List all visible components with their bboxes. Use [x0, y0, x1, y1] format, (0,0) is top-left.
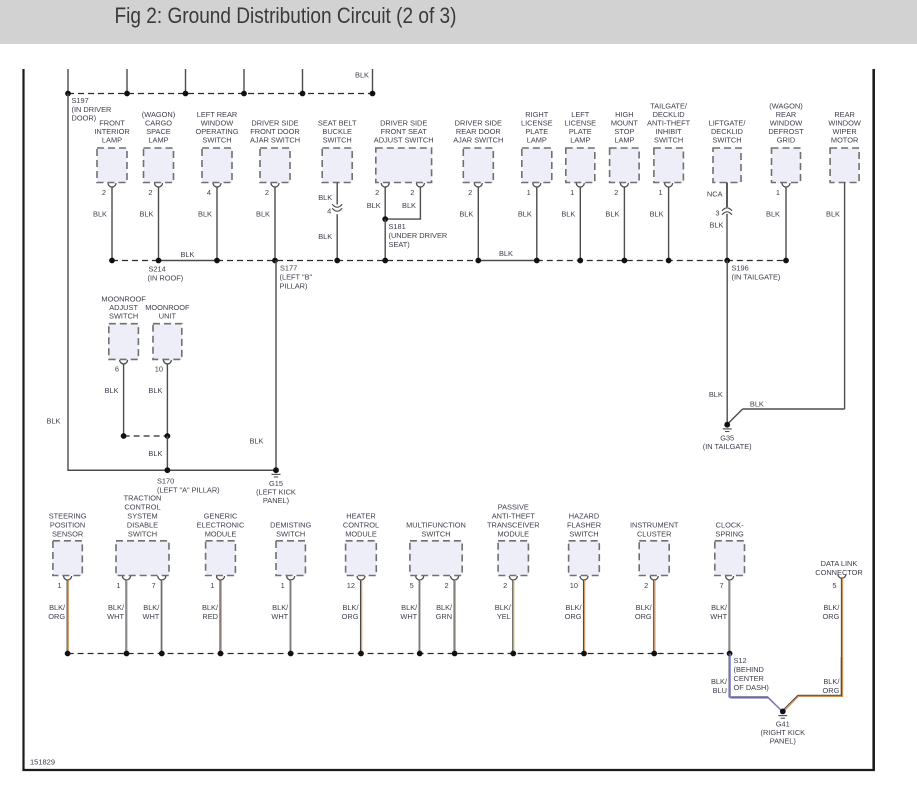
svg-text:BLK/: BLK/ — [342, 603, 359, 612]
svg-text:CENTER: CENTER — [734, 674, 764, 683]
component passive anti-theft transceiver module — [487, 503, 540, 591]
svg-text:(IN ROOF): (IN ROOF) — [148, 274, 184, 283]
ground G35 — [724, 422, 730, 428]
node on bus3 6 — [358, 651, 364, 657]
component data link connector — [815, 559, 863, 590]
wire S181 to bus BLK — [384, 219, 386, 260]
wire heater control module pin 12 BLK/ORG — [360, 580, 362, 654]
svg-text:ORG: ORG — [48, 612, 65, 621]
svg-text:SENSOR: SENSOR — [52, 530, 83, 539]
wire traction control system disable switch pin 7 BLK/WHT — [160, 580, 162, 654]
svg-text:BLK: BLK — [826, 210, 840, 219]
svg-text:GRID: GRID — [777, 136, 795, 145]
node on bus3 1 — [65, 651, 71, 657]
wire steering position sensor pin 1 BLK/ORG — [66, 580, 68, 654]
svg-text:MODULE: MODULE — [497, 530, 529, 539]
svg-text:SYSTEM: SYSTEM — [127, 512, 157, 521]
node on bus3 12 — [727, 651, 733, 657]
svg-text:BLK: BLK — [318, 193, 332, 202]
svg-text:(UNDER DRIVER: (UNDER DRIVER — [389, 231, 448, 240]
bus lower ground distribution line (S12) — [68, 653, 730, 655]
svg-text:STEERING: STEERING — [49, 512, 87, 521]
wire high mount stop lamp BLK — [623, 187, 625, 261]
svg-text:ORG: ORG — [342, 612, 359, 621]
component moonroof adjust switch — [101, 295, 146, 374]
svg-text:WHT: WHT — [400, 612, 417, 621]
svg-text:DATA LINK: DATA LINK — [821, 559, 858, 568]
svg-text:LAMP: LAMP — [570, 136, 590, 145]
svg-text:BLK/: BLK/ — [711, 677, 728, 686]
svg-text:SWITCH: SWITCH — [202, 136, 231, 145]
svg-text:BLK/: BLK/ — [711, 603, 728, 612]
svg-text:HEATER: HEATER — [346, 512, 375, 521]
wire hazard flasher switch pin 10 BLK/ORG — [583, 580, 585, 654]
svg-text:BLK/: BLK/ — [202, 603, 219, 612]
node S181 — [382, 216, 388, 222]
svg-text:4: 4 — [327, 207, 331, 216]
svg-text:BLK: BLK — [256, 210, 270, 219]
svg-text:BLK: BLK — [561, 210, 575, 219]
component cargo space lamp — [142, 110, 175, 197]
component left rear window operating switch — [196, 110, 239, 197]
node on S197 bus 2 — [124, 91, 130, 97]
svg-text:1: 1 — [658, 188, 662, 197]
diagram frame border — [22, 69, 24, 770]
svg-text:BLK: BLK — [766, 210, 780, 219]
svg-text:(LEFT "B": (LEFT "B" — [280, 273, 313, 282]
wire stub from top 1 — [67, 69, 69, 94]
bus ground distribution line (S214/S177/S196) — [112, 260, 159, 262]
svg-text:5: 5 — [832, 581, 836, 590]
wire stub from top 6 — [372, 69, 374, 94]
wire seat adjust switch pin2 right BLK — [419, 187, 421, 219]
svg-text:BLK/: BLK/ — [108, 603, 125, 612]
wire stub from top 2 — [126, 69, 128, 94]
ground G41 — [780, 709, 786, 715]
svg-text:2: 2 — [375, 188, 379, 197]
svg-text:MODULE: MODULE — [205, 530, 237, 539]
wire S177 down to G15 BLK — [275, 261, 277, 471]
wire traction control system disable switch pin 1 BLK/WHT — [125, 580, 127, 654]
node on bus2 6 — [382, 258, 388, 264]
svg-text:BLK: BLK — [367, 201, 381, 210]
svg-text:BLK/: BLK/ — [495, 603, 512, 612]
component hazard flasher switch — [567, 512, 601, 591]
svg-text:BLK: BLK — [709, 390, 723, 399]
svg-text:MODULE: MODULE — [345, 530, 377, 539]
component seat belt buckle switch — [318, 119, 357, 183]
svg-text:BLK: BLK — [750, 400, 764, 409]
svg-text:7: 7 — [152, 581, 156, 590]
node on bus3 2 — [124, 651, 130, 657]
component clock-spring — [715, 521, 745, 591]
node on S197 bus 1 — [65, 91, 71, 97]
svg-text:RED: RED — [202, 612, 218, 621]
svg-text:BLK: BLK — [105, 386, 119, 395]
svg-text:1: 1 — [527, 188, 531, 197]
svg-text:S214: S214 — [149, 265, 166, 274]
svg-text:2: 2 — [468, 188, 472, 197]
svg-text:BLK: BLK — [140, 210, 154, 219]
component high mount stop lamp — [610, 110, 640, 197]
wire defrost grid BLK — [785, 187, 787, 261]
svg-text:SPRING: SPRING — [715, 530, 744, 539]
wire moonroof to S170 BLK — [166, 436, 168, 470]
svg-text:2: 2 — [265, 188, 269, 197]
svg-text:BLK: BLK — [93, 210, 107, 219]
svg-text:CONTROL: CONTROL — [124, 503, 160, 512]
svg-text:2: 2 — [614, 188, 618, 197]
svg-text:BLK/: BLK/ — [272, 603, 289, 612]
svg-text:LAMP: LAMP — [527, 136, 547, 145]
svg-text:3: 3 — [715, 209, 719, 218]
wire passive anti-theft transceiver module pin 2 BLK/YEL — [512, 580, 514, 654]
svg-text:S170: S170 — [157, 477, 174, 486]
wire tailgate anti-theft BLK — [668, 187, 670, 261]
node on bus2 9 — [577, 258, 583, 264]
node on bus2 13 — [783, 258, 789, 264]
wire S196 down to G35 BLK — [726, 261, 728, 425]
node on S197 bus 5 — [300, 91, 306, 97]
svg-text:(IN TAILGATE): (IN TAILGATE) — [703, 442, 752, 451]
component right license plate lamp — [521, 110, 553, 197]
component traction control system disable switch — [116, 494, 169, 591]
svg-text:TRANSCEIVER: TRANSCEIVER — [487, 521, 540, 530]
wire left rear window switch BLK to bus — [216, 187, 218, 261]
svg-text:BLK: BLK — [650, 210, 664, 219]
node S170 — [165, 467, 171, 473]
wire wiper motor horizontal to G35 — [743, 408, 845, 410]
svg-text:MULTIFUNCTION: MULTIFUNCTION — [406, 521, 466, 530]
svg-text:WHT: WHT — [142, 612, 159, 621]
node on bus3 8 — [452, 651, 458, 657]
svg-text:BLK/: BLK/ — [436, 603, 453, 612]
svg-text:AJAR SWITCH: AJAR SWITCH — [250, 136, 300, 145]
svg-text:BLK: BLK — [181, 250, 195, 259]
svg-text:BLK: BLK — [148, 386, 162, 395]
component left license plate lamp — [564, 110, 596, 197]
node on bus2 11 — [666, 258, 672, 264]
node on bus3 4 — [218, 651, 224, 657]
svg-text:SWITCH: SWITCH — [654, 136, 683, 145]
svg-text:7: 7 — [719, 581, 723, 590]
svg-text:BLK: BLK — [459, 210, 473, 219]
node on bus3 11 — [651, 651, 657, 657]
svg-text:PILLAR): PILLAR) — [280, 282, 308, 291]
svg-text:GENERIC: GENERIC — [204, 512, 238, 521]
svg-text:5: 5 — [410, 581, 414, 590]
svg-text:ORG: ORG — [565, 612, 582, 621]
svg-text:1: 1 — [776, 188, 780, 197]
wire stub from top 4 — [243, 69, 245, 94]
wire rear window wiper motor BLK down — [844, 183, 846, 410]
svg-text:SWITCH: SWITCH — [712, 136, 741, 145]
inline connector on seat belt wire pin 4 — [332, 204, 342, 207]
svg-text:Fig 2: Ground Distribution Cir: Fig 2: Ground Distribution Circuit (2 of… — [115, 3, 457, 28]
svg-text:MOTOR: MOTOR — [831, 136, 858, 145]
svg-text:SWITCH: SWITCH — [276, 530, 305, 539]
svg-text:DEMISTING: DEMISTING — [270, 521, 311, 530]
svg-text:2: 2 — [644, 581, 648, 590]
svg-text:BLK/: BLK/ — [143, 603, 160, 612]
svg-text:BLK: BLK — [318, 232, 332, 241]
ground G15 — [273, 467, 279, 473]
svg-text:(LEFT "A" PILLAR): (LEFT "A" PILLAR) — [157, 486, 220, 495]
wire BLK solid segment S214 — [159, 260, 218, 262]
svg-text:ORG: ORG — [635, 612, 652, 621]
component demisting switch — [270, 521, 311, 591]
svg-text:BLU: BLU — [713, 686, 727, 695]
svg-text:PANEL): PANEL) — [263, 496, 289, 505]
node on bus3 9 — [510, 651, 516, 657]
svg-text:6: 6 — [115, 365, 119, 374]
svg-text:BLK/: BLK/ — [401, 603, 418, 612]
node moonroof left — [121, 433, 127, 439]
svg-text:AJAR SWITCH: AJAR SWITCH — [453, 136, 503, 145]
dashed link between moonroof wires — [124, 435, 168, 437]
component instrument cluster — [630, 521, 679, 591]
svg-text:PASSIVE: PASSIVE — [498, 503, 529, 512]
node on S197 bus 4 — [241, 91, 247, 97]
component front interior lamp — [94, 119, 129, 198]
wire instrument cluster pin 2 BLK/ORG — [653, 580, 655, 654]
svg-text:SWITCH: SWITCH — [128, 530, 157, 539]
component rear window wiper motor — [828, 110, 860, 183]
svg-text:BLK: BLK — [710, 221, 724, 230]
component steering position sensor — [49, 512, 87, 591]
wire driver front door ajar BLK to bus — [274, 187, 276, 261]
node on bus2 8 — [534, 258, 540, 264]
svg-text:TRACTION: TRACTION — [124, 494, 162, 503]
svg-text:2: 2 — [148, 188, 152, 197]
component driver side rear door ajar switch — [453, 119, 503, 198]
wire rear door ajar BLK to bus — [477, 187, 479, 261]
svg-text:BLK/: BLK/ — [823, 677, 840, 686]
svg-text:BLK: BLK — [499, 249, 513, 258]
svg-text:UNIT: UNIT — [159, 312, 177, 321]
svg-text:ADJUST SWITCH: ADJUST SWITCH — [374, 136, 434, 145]
svg-text:CLUSTER: CLUSTER — [637, 530, 672, 539]
node on bus2 1 — [109, 258, 115, 264]
node on bus2 3 — [214, 258, 220, 264]
wire seat adjust switch pin2 left BLK — [384, 187, 386, 219]
svg-text:CLOCK-: CLOCK- — [716, 521, 744, 530]
svg-text:ORG: ORG — [823, 612, 840, 621]
wire moonroof unit BLK — [166, 364, 168, 436]
component driver side front door ajar switch — [250, 119, 300, 198]
svg-text:WHT: WHT — [107, 612, 124, 621]
svg-text:SEAT): SEAT) — [389, 240, 410, 249]
title bar — [0, 0, 917, 44]
svg-text:BLK: BLK — [355, 71, 369, 80]
svg-text:10: 10 — [570, 581, 578, 590]
svg-text:INSTRUMENT: INSTRUMENT — [630, 521, 679, 530]
wire data link connector BLK/ORG — [840, 578, 842, 696]
wire seat belt buckle BLK lower — [336, 214, 338, 260]
svg-text:S196: S196 — [732, 264, 749, 273]
svg-text:LAMP: LAMP — [102, 136, 122, 145]
svg-text:NCA: NCA — [707, 190, 723, 199]
component liftgate/decklid switch — [709, 119, 747, 183]
svg-text:POSITION: POSITION — [50, 521, 85, 530]
svg-text:SWITCH: SWITCH — [323, 136, 352, 145]
svg-text:2: 2 — [102, 188, 106, 197]
svg-text:YEL: YEL — [497, 612, 511, 621]
svg-text:1: 1 — [57, 581, 61, 590]
svg-text:WHT: WHT — [271, 612, 288, 621]
node on S197 bus 6 — [370, 91, 376, 97]
node on bus2 7 — [475, 258, 481, 264]
node moonroof right — [165, 433, 171, 439]
svg-text:BLK: BLK — [47, 417, 61, 426]
svg-text:(BEHIND: (BEHIND — [734, 665, 764, 674]
wire demisting switch pin 1 BLK/WHT — [289, 580, 291, 654]
component multifunction switch — [406, 521, 466, 591]
svg-text:2: 2 — [410, 188, 414, 197]
svg-text:(IN TAILGATE): (IN TAILGATE) — [732, 273, 781, 282]
component tailgate/decklid anti-theft inhibit switch — [647, 102, 691, 198]
svg-text:10: 10 — [155, 365, 163, 374]
svg-text:OF DASH): OF DASH) — [734, 683, 769, 692]
node on bus3 3 — [159, 651, 165, 657]
node on bus2 12 — [724, 258, 730, 264]
svg-text:DISABLE: DISABLE — [127, 521, 158, 530]
wire stub from top 5 — [302, 69, 304, 94]
wire liftgate/decklid switch NCA — [726, 183, 728, 208]
component heater control module — [343, 512, 379, 591]
wire front interior lamp BLK to bus — [111, 187, 113, 261]
wire data link to G41 BLK/ORG — [783, 657, 841, 710]
svg-text:DOOR): DOOR) — [72, 114, 97, 123]
svg-text:BLK/: BLK/ — [636, 603, 653, 612]
svg-text:BLK: BLK — [518, 210, 532, 219]
svg-text:2: 2 — [444, 581, 448, 590]
svg-text:LAMP: LAMP — [148, 136, 168, 145]
node on bus2 2 — [156, 258, 162, 264]
svg-text:LAMP: LAMP — [614, 136, 634, 145]
svg-text:SWITCH: SWITCH — [421, 530, 450, 539]
svg-text:CONNECTOR: CONNECTOR — [815, 568, 863, 577]
inline connector on liftgate wire pin 3 — [722, 208, 732, 211]
svg-text:S197: S197 — [72, 96, 89, 105]
svg-text:BLK/: BLK/ — [823, 603, 840, 612]
svg-text:2: 2 — [503, 581, 507, 590]
svg-text:BLK: BLK — [198, 210, 212, 219]
component generic electronic module — [197, 512, 245, 591]
svg-text:SWITCH: SWITCH — [109, 312, 138, 321]
svg-text:HAZARD: HAZARD — [569, 512, 599, 521]
component driver side front seat adjust switch — [374, 119, 434, 198]
svg-text:WHT: WHT — [710, 612, 727, 621]
svg-text:ELECTRONIC: ELECTRONIC — [197, 521, 245, 530]
node on bus3 5 — [288, 651, 294, 657]
node on bus2 10 — [622, 258, 628, 264]
svg-text:1: 1 — [570, 188, 574, 197]
svg-text:S12: S12 — [734, 656, 747, 665]
node on bus2 5 — [334, 258, 340, 264]
wire seat belt buckle BLK upper — [336, 183, 338, 205]
svg-text:ANTI-THEFT: ANTI-THEFT — [492, 512, 536, 521]
node on S197 bus 3 — [183, 91, 189, 97]
wire right license lamp BLK — [536, 187, 538, 261]
node on bus3 10 — [581, 651, 587, 657]
wire S197 down left side to S170 — [67, 94, 69, 471]
wire BLK solid segment right — [478, 260, 537, 262]
wire S12 to G41 BLK/BLU — [729, 654, 782, 712]
svg-text:151829: 151829 — [30, 758, 55, 767]
svg-text:S181: S181 — [389, 222, 406, 231]
svg-text:1: 1 — [210, 581, 214, 590]
svg-text:FLASHER: FLASHER — [567, 521, 601, 530]
svg-text:BLK: BLK — [148, 449, 162, 458]
svg-text:PANEL): PANEL) — [770, 737, 796, 746]
wire generic electronic module pin 1 BLK/RED — [219, 580, 221, 654]
wire cargo space lamp BLK to bus — [158, 187, 160, 261]
svg-text:S177: S177 — [280, 264, 297, 273]
svg-text:BLK: BLK — [605, 210, 619, 219]
svg-text:BLK: BLK — [250, 437, 264, 446]
node on bus3 7 — [417, 651, 423, 657]
wire left license lamp BLK — [579, 187, 581, 261]
svg-text:1: 1 — [281, 581, 285, 590]
svg-text:SWITCH: SWITCH — [569, 530, 598, 539]
svg-text:GRN: GRN — [436, 612, 452, 621]
svg-text:BLK/: BLK/ — [565, 603, 582, 612]
svg-text:CONTROL: CONTROL — [343, 521, 379, 530]
wire multifunction switch pin 5 BLK/WHT — [418, 580, 420, 654]
bus S197 dashed ground distribution line — [68, 93, 373, 95]
svg-text:BLK/: BLK/ — [49, 603, 66, 612]
wire clock-spring pin 7 BLK/WHT — [728, 580, 730, 654]
svg-text:12: 12 — [347, 581, 355, 590]
svg-text:4: 4 — [207, 188, 211, 197]
wire multifunction switch pin 2 BLK/GRN — [453, 580, 455, 654]
component rear window defrost grid — [768, 102, 804, 198]
svg-text:ORG: ORG — [823, 686, 840, 695]
wire moonroof adjust BLK — [123, 364, 125, 436]
svg-text:BLK: BLK — [402, 201, 416, 210]
node on bus2 4 — [272, 258, 278, 264]
svg-text:1: 1 — [116, 581, 120, 590]
wire liftgate BLK lower — [726, 214, 728, 261]
component moonroof unit — [145, 303, 190, 374]
wire stub from top 3 — [185, 69, 187, 94]
